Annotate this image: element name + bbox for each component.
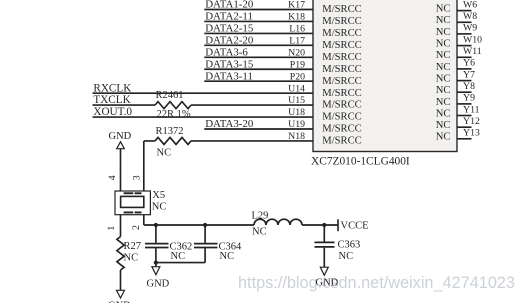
wire stub pin W9 — [457, 33, 472, 35]
svg-text:W9: W9 — [463, 23, 477, 34]
svg-text:NC: NC — [157, 147, 172, 158]
capacitor C362 — [145, 225, 169, 263]
svg-text:NC: NC — [436, 97, 451, 108]
svg-text:Y6: Y6 — [463, 58, 475, 69]
wire stub pin W8 — [457, 21, 472, 23]
svg-text:R1372: R1372 — [156, 126, 184, 137]
svg-text:M/SRCC: M/SRCC — [322, 64, 361, 75]
svg-text:R27: R27 — [124, 241, 142, 252]
svg-text:Y13: Y13 — [463, 128, 480, 139]
resistor R27 — [117, 237, 124, 270]
svg-text:X5: X5 — [152, 190, 165, 201]
svg-text:M/SRCC: M/SRCC — [322, 100, 361, 111]
svg-text:DATA2-20: DATA2-20 — [205, 34, 254, 46]
svg-text:NC: NC — [252, 226, 267, 237]
pin number 1 — [106, 226, 117, 231]
svg-text:Y7: Y7 — [463, 69, 475, 80]
svg-text:U19: U19 — [288, 119, 305, 130]
svg-text:https://blog.csdn.net/weixin_4: https://blog.csdn.net/weixin_42741023 — [238, 274, 515, 292]
svg-text:TXCLK: TXCLK — [93, 94, 130, 106]
svg-text:NC: NC — [124, 252, 139, 263]
ground GND (below R27) — [117, 290, 125, 298]
svg-text:P20: P20 — [290, 71, 305, 82]
svg-text:NC: NC — [152, 202, 167, 213]
svg-text:DATA3-20: DATA3-20 — [205, 118, 254, 130]
svg-text:N20: N20 — [288, 47, 305, 58]
svg-text:M/SRCC: M/SRCC — [322, 28, 361, 39]
inductor L29 — [254, 219, 302, 225]
wire crystal pin 2 to rail — [143, 215, 145, 225]
wire stub pin Y13 — [457, 138, 472, 140]
svg-text:M/SRCC: M/SRCC — [322, 4, 361, 15]
wire net DATA2-20 to pin L17 — [204, 44, 313, 46]
svg-text:DATA1-20: DATA1-20 — [205, 0, 254, 11]
pin number 4 — [107, 175, 118, 180]
wire net DATA2-11 to pin K18 — [204, 20, 313, 22]
svg-text:NC: NC — [436, 15, 451, 26]
svg-text:Y12: Y12 — [463, 116, 480, 127]
svg-text:NC: NC — [436, 27, 451, 38]
svg-text:Y11: Y11 — [463, 104, 480, 115]
svg-text:R2461: R2461 — [156, 90, 184, 101]
power VCCE — [337, 219, 339, 231]
svg-text:DATA2-15: DATA2-15 — [205, 23, 254, 35]
wire stub pin W10 — [457, 45, 472, 47]
wire stub pin Y9 — [457, 103, 472, 105]
svg-text:GND: GND — [109, 131, 132, 142]
wire crystal pin 1 to R27 — [120, 215, 122, 237]
wire net DATA1-20 to pin K17 — [204, 9, 313, 11]
svg-text:22R 1%: 22R 1% — [157, 109, 191, 120]
wire crystal pin3 riser to resistor R1372 — [144, 140, 155, 142]
wire stub pin W6 — [457, 10, 472, 12]
svg-text:L16: L16 — [289, 24, 305, 35]
svg-text:L17: L17 — [289, 35, 305, 46]
svg-text:DATA3-11: DATA3-11 — [205, 70, 253, 82]
wire rail crystal to L29 — [144, 224, 254, 226]
svg-text:M/SRCC: M/SRCC — [322, 52, 361, 63]
pin number 3 — [132, 175, 143, 180]
svg-text:4: 4 — [107, 175, 118, 180]
svg-text:3: 3 — [132, 175, 143, 180]
svg-text:P19: P19 — [290, 59, 305, 70]
svg-text:K17: K17 — [288, 0, 305, 11]
svg-text:GND: GND — [147, 278, 170, 289]
svg-text:N18: N18 — [288, 131, 305, 142]
pin number 2 — [131, 225, 142, 230]
svg-text:DATA3-6: DATA3-6 — [205, 46, 248, 58]
svg-text:M/SRCC: M/SRCC — [322, 40, 361, 51]
svg-text:NC: NC — [436, 85, 451, 96]
junction C362/rail — [154, 223, 158, 227]
svg-text:C363: C363 — [338, 240, 361, 251]
svg-text:NC: NC — [436, 39, 451, 50]
svg-text:W11: W11 — [463, 46, 482, 57]
svg-text:U18: U18 — [288, 107, 305, 118]
wire R1372 to pin N18 — [191, 140, 313, 142]
wire crystal pin 3 riser — [143, 141, 145, 191]
svg-text:Y8: Y8 — [463, 81, 475, 92]
svg-text:NC: NC — [436, 132, 451, 143]
svg-text:M/SRCC: M/SRCC — [322, 16, 361, 27]
svg-text:W10: W10 — [463, 34, 482, 45]
wire net XOUT.0 to pin U18 — [93, 116, 314, 118]
wire net DATA3-15 to pin P19 — [204, 68, 313, 70]
svg-text:M/SRCC: M/SRCC — [322, 124, 361, 135]
wire R27 to ground — [120, 270, 122, 290]
wire R2461 to pin U15 — [191, 104, 313, 106]
ground GND (below C362) — [155, 263, 157, 267]
svg-text:NC: NC — [436, 50, 451, 61]
svg-text:NC: NC — [220, 251, 235, 262]
svg-text:M/SRCC: M/SRCC — [322, 136, 361, 147]
svg-text:W6: W6 — [463, 0, 477, 10]
resistor R2461 — [155, 102, 191, 109]
junction bottom of C362 — [154, 261, 158, 265]
wire stub pin Y8 — [457, 91, 472, 93]
wire net DATA2-15 to pin L16 — [204, 32, 313, 34]
svg-text:2: 2 — [131, 225, 142, 230]
wire net DATA3-20 to pin U19 — [204, 128, 313, 130]
resistor R1372 — [155, 137, 191, 144]
svg-text:Y9: Y9 — [463, 93, 475, 104]
svg-text:1: 1 — [106, 226, 117, 231]
svg-text:L29: L29 — [252, 210, 269, 221]
svg-text:NC: NC — [436, 108, 451, 119]
svg-text:M/SRCC: M/SRCC — [322, 76, 361, 87]
capacitor C364 — [194, 225, 218, 263]
svg-text:DATA2-11: DATA2-11 — [205, 11, 253, 23]
wire net DATA3-6 to pin N20 — [204, 56, 313, 58]
svg-text:NC: NC — [339, 251, 354, 262]
svg-text:NC: NC — [436, 62, 451, 73]
junction C364/rail — [203, 223, 207, 227]
junction C363/VCCE — [322, 223, 326, 227]
wire stub pin Y12 — [457, 126, 472, 128]
svg-text:VCCE: VCCE — [341, 220, 369, 231]
wire stub pin Y6 — [457, 68, 472, 70]
crystal X5 — [115, 191, 150, 215]
svg-text:M/SRCC: M/SRCC — [322, 88, 361, 99]
svg-text:W8: W8 — [463, 11, 477, 22]
capacitor C363 — [315, 225, 335, 267]
wire C362 to C364 bottoms — [156, 262, 205, 264]
wire net DATA3-11 to pin P20 — [204, 80, 313, 82]
IC XC7Z010-1CLG400I (FPGA) body — [313, 0, 457, 152]
wire stub pin Y11 — [457, 115, 472, 117]
svg-text:M/SRCC: M/SRCC — [322, 112, 361, 123]
svg-text:NC: NC — [171, 251, 186, 262]
svg-text:DATA3-15: DATA3-15 — [205, 58, 254, 70]
svg-text:XOUT.0: XOUT.0 — [93, 106, 132, 118]
wire stub pin Y7 — [457, 80, 472, 82]
svg-text:GND: GND — [316, 277, 339, 288]
svg-text:XC7Z010-1CLG400I: XC7Z010-1CLG400I — [311, 155, 410, 167]
svg-text:NC: NC — [436, 120, 451, 131]
wire L29 to VCCE — [302, 224, 338, 226]
wire GND to crystal pin 4 — [120, 149, 122, 191]
svg-text:NC: NC — [436, 4, 451, 15]
wire net TXCLK to resistor R2461 — [93, 104, 156, 106]
wire stub pin W11 — [457, 56, 472, 58]
svg-text:K18: K18 — [288, 12, 305, 23]
svg-text:RXCLK: RXCLK — [93, 82, 131, 94]
svg-text:NC: NC — [436, 74, 451, 85]
svg-text:U15: U15 — [288, 95, 305, 106]
svg-text:U14: U14 — [288, 83, 305, 94]
ground GND (below C363) — [320, 267, 328, 275]
wire net RXCLK to pin U14 — [93, 92, 314, 94]
